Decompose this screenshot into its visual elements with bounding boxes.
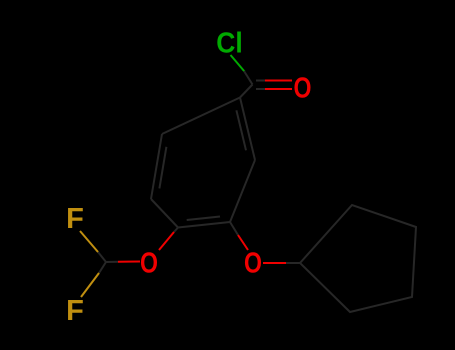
benzene ring C6-C1 [162,98,240,135]
bond right O to cyclopentyl gray part [286,262,300,264]
benzene ring C2-C3 [230,160,255,222]
svg-text:F: F [66,295,84,327]
bond left O to CHF2 carbon red part [118,261,140,263]
C=O double bond lower line gray stub [256,88,265,90]
bond C4 to left O red part [159,232,174,250]
bond CHF2 to bottom F gold part [81,273,99,297]
aromatic inner line C5-C6 [159,147,166,189]
bond C4 to left O gray part [174,228,178,233]
cyclopentane ring [300,205,416,312]
aromatic inner line C1-C2 [236,110,246,150]
bond A to Cl (gray part near carbon) [244,71,253,85]
svg-text:F: F [66,203,84,235]
bond right O to cyclopentyl red part [263,262,286,264]
bond C3 to right O red part [238,235,248,250]
bond C3 to right O gray part [230,222,238,235]
svg-text:O: O [244,248,262,280]
benzene ring C1-C2 [240,98,255,161]
bond C1 to acyl carbon A [240,85,253,98]
C=O double bond lower line red [265,88,292,90]
benzene ring C3-C4 [178,222,230,228]
bond CHF2 to top F gray part [98,252,106,262]
svg-text:O: O [294,73,312,105]
aromatic inner line C3-C4 [187,217,220,221]
C=O double bond upper line red [265,80,292,82]
bond CHF2 to bottom F gray part [99,262,106,273]
benzene ring C4-C5 [151,199,178,228]
C=O double bond upper line gray stub [256,80,265,82]
bond A to Cl (green part near label) [231,55,245,72]
bond CHF2 to top F gold part [80,231,98,252]
svg-text:O: O [140,248,158,280]
svg-text:Cl: Cl [216,28,243,60]
benzene ring C5-C6 [151,134,162,199]
bond left O to CHF2 carbon gray part [106,261,118,263]
